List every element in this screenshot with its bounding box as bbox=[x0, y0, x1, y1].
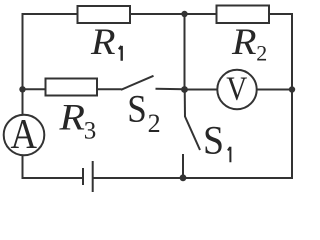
voltmeter V bbox=[217, 70, 256, 109]
switch S2 blade (open) bbox=[121, 76, 154, 90]
wire: middle horizontal (R3 to switch S2 hinge) bbox=[98, 88, 122, 90]
wire: top horizontal (left corner to R1) bbox=[22, 13, 78, 15]
resistor R1 bbox=[78, 6, 131, 23]
wire: centre vertical (centre node to S1 hinge) bbox=[184, 89, 186, 117]
svg-text:S: S bbox=[127, 87, 147, 131]
wire: left vertical (ammeter bottom to bottom-left corner) bbox=[22, 156, 24, 179]
node: centre junction bbox=[181, 86, 188, 93]
battery: long plate bbox=[92, 161, 94, 192]
wire: right vertical (top corner to right node) bbox=[291, 13, 293, 90]
wire: bottom horizontal (bottom-left corner to battery) bbox=[22, 177, 84, 179]
resistor R2 bbox=[217, 6, 270, 24]
node: top junction bbox=[181, 11, 187, 17]
node: right junction bbox=[289, 86, 295, 92]
ammeter A bbox=[4, 115, 45, 156]
svg-text:A: A bbox=[11, 111, 38, 158]
svg-text:2: 2 bbox=[256, 41, 267, 66]
svg-text:R: R bbox=[90, 22, 116, 63]
wire: middle horizontal (left junction to R3) bbox=[22, 88, 46, 90]
wire: bottom horizontal (battery to bottom node) bbox=[93, 177, 183, 179]
wire: centre vertical (top node to centre node) bbox=[184, 14, 186, 89]
wire: middle horizontal (voltmeter to right node) bbox=[257, 89, 293, 91]
svg-text:R: R bbox=[231, 22, 257, 63]
wire: left vertical (junction to ammeter top) bbox=[22, 89, 24, 114]
wire: top horizontal (R1 to top node) bbox=[130, 13, 185, 15]
wire: middle horizontal (centre node to voltmeter) bbox=[185, 89, 218, 91]
wire: S1 lower contact to bottom node bbox=[182, 154, 184, 178]
svg-text:3: 3 bbox=[84, 118, 97, 145]
wire: left vertical (top corner to left junction) bbox=[22, 14, 24, 89]
switch S1 blade (open) bbox=[185, 117, 200, 151]
svg-text:R: R bbox=[58, 97, 85, 138]
wire: top horizontal (R2 to top-right corner) bbox=[269, 13, 292, 15]
resistor R3 bbox=[46, 79, 98, 96]
node: left junction bbox=[19, 86, 25, 92]
wire: right vertical (right node to bottom-right corner) bbox=[291, 90, 293, 179]
node: bottom junction bbox=[180, 174, 187, 181]
svg-text:V: V bbox=[226, 71, 247, 108]
wire: bottom horizontal (bottom node to bottom-right corner) bbox=[183, 177, 293, 179]
svg-text:2: 2 bbox=[148, 109, 161, 138]
wire: top horizontal (top node to R2) bbox=[185, 13, 217, 15]
svg-text:S: S bbox=[203, 118, 224, 163]
wire: middle horizontal (S2 contact to centre node) bbox=[156, 88, 185, 91]
battery: short plate bbox=[82, 168, 84, 185]
